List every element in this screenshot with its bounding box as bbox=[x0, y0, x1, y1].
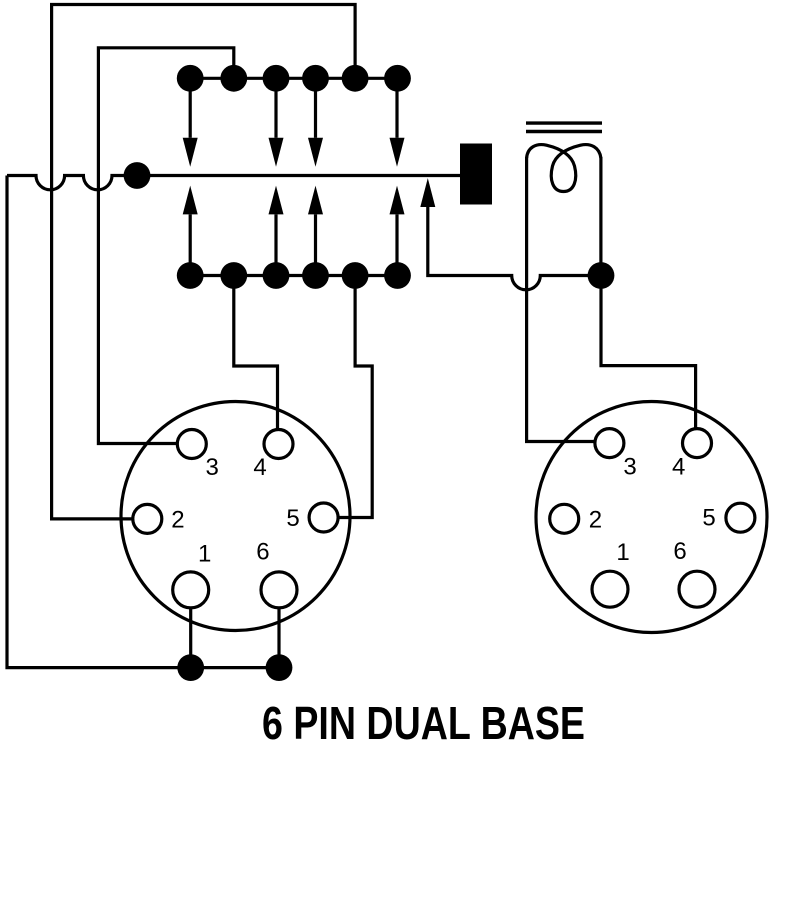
junction dot below pin1 bbox=[177, 654, 204, 681]
svg-text:4: 4 bbox=[253, 454, 266, 481]
wire second loop: top dot 2 to pin 3 of left base bbox=[98, 48, 233, 444]
svg-text:5: 5 bbox=[702, 504, 715, 531]
right base pin 1 bbox=[592, 571, 628, 607]
right base pin 3 bbox=[595, 429, 624, 458]
arrowhead up 4 bbox=[308, 186, 323, 215]
wire junction to pin 4 right base bbox=[601, 276, 696, 429]
bottom rail dot 1 bbox=[177, 262, 204, 289]
wire bottom contact rail bbox=[190, 274, 398, 277]
arrowhead down 4 bbox=[308, 138, 323, 167]
junction dot middle bus bbox=[124, 162, 151, 189]
svg-text:6: 6 bbox=[673, 538, 686, 565]
coil core line lower bbox=[526, 130, 602, 133]
contact arrow down 1 bbox=[189, 78, 192, 138]
arrowhead down 6 bbox=[390, 138, 405, 167]
junction dot below pin6 bbox=[266, 654, 293, 681]
left base pin 3 bbox=[177, 430, 206, 459]
left base pin 2 bbox=[133, 504, 162, 533]
svg-text:1: 1 bbox=[616, 539, 629, 566]
svg-text:6 PIN DUAL BASE: 6 PIN DUAL BASE bbox=[262, 697, 585, 749]
left base pin 4 bbox=[264, 430, 293, 459]
arrowhead up 6 bbox=[390, 186, 405, 215]
left base pin 6 bbox=[261, 572, 297, 608]
left base pin 5 bbox=[309, 503, 338, 532]
wire pin1 stub left base bbox=[189, 608, 192, 668]
arrowhead down 3 bbox=[269, 138, 284, 167]
right base pin 5 bbox=[726, 503, 755, 532]
svg-text:3: 3 bbox=[206, 454, 219, 481]
contact arrow down 3 bbox=[274, 78, 277, 138]
svg-text:2: 2 bbox=[589, 507, 602, 534]
right base pin 2 bbox=[550, 504, 579, 533]
contact arrow down 4 bbox=[314, 78, 317, 138]
wire left edge: middle bus to bottom jumper bbox=[7, 176, 279, 668]
solenoid plunger block bbox=[460, 144, 492, 205]
bottom rail dot 6 bbox=[384, 262, 411, 289]
coil winding loop bbox=[527, 145, 601, 192]
contact arrow down 6 bbox=[395, 78, 398, 138]
left base outline bbox=[121, 402, 350, 631]
arrowhead down 1 bbox=[183, 138, 198, 167]
top rail dot 1 bbox=[177, 65, 204, 92]
coil left lead to pin 3 right base bbox=[527, 157, 595, 442]
junction dot coil right bbox=[588, 262, 615, 289]
wire middle bus with hops bbox=[7, 176, 460, 190]
svg-text:3: 3 bbox=[623, 453, 636, 480]
coil right lead to junction bbox=[599, 157, 602, 276]
bottom rail dot 4 bbox=[302, 262, 329, 289]
bottom rail dot 2 bbox=[220, 262, 247, 289]
top rail dot 3 bbox=[263, 65, 290, 92]
contact arrow up 4 bbox=[314, 214, 317, 275]
right base outline bbox=[536, 402, 767, 633]
arrowhead up 3 bbox=[269, 186, 284, 215]
wire top loop: top dot 5 to pin 2 of left base bbox=[52, 5, 356, 519]
coil core line upper bbox=[526, 121, 602, 124]
contact arrow up 1 bbox=[189, 214, 192, 275]
wire coil arrow to junction with hop bbox=[428, 207, 601, 290]
top rail dot 4 bbox=[302, 65, 329, 92]
bottom rail dot 3 bbox=[263, 262, 290, 289]
left base pin 1 bbox=[173, 572, 209, 608]
wire pin6 stub left base bbox=[277, 608, 280, 668]
svg-text:6: 6 bbox=[256, 539, 269, 566]
top rail dot 5 bbox=[342, 65, 369, 92]
bottom rail dot 5 bbox=[342, 262, 369, 289]
svg-text:2: 2 bbox=[171, 507, 184, 534]
svg-text:4: 4 bbox=[672, 453, 685, 480]
svg-text:5: 5 bbox=[286, 505, 299, 532]
top rail dot 6 bbox=[384, 65, 411, 92]
wire bottom dot 2 to pin 4 left base bbox=[234, 276, 278, 430]
contact arrow up 6 bbox=[395, 214, 398, 275]
arrowhead up 1 bbox=[183, 186, 198, 215]
wire bottom dot 5 to pin 5 left base bbox=[338, 276, 372, 518]
wire top contact rail bbox=[190, 77, 398, 80]
arrowhead up coil lead bbox=[420, 178, 435, 207]
svg-text:1: 1 bbox=[198, 541, 211, 568]
right base pin 6 bbox=[679, 571, 715, 607]
right base pin 4 bbox=[683, 429, 712, 458]
contact arrow up 3 bbox=[274, 214, 277, 275]
top rail dot 2 bbox=[220, 65, 247, 92]
